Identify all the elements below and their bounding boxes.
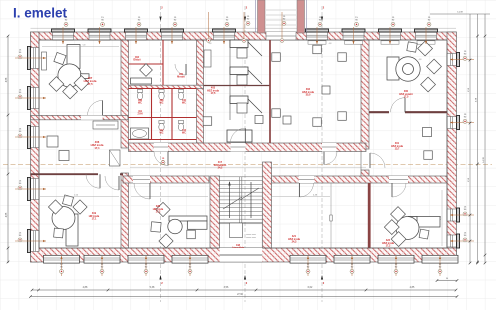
wall TL divider <box>31 115 129 119</box>
marker bottom <box>394 264 398 273</box>
axis line horizontal <box>3 164 492 166</box>
BR1 partition line <box>330 183 332 248</box>
door TR2 <box>369 153 371 168</box>
marker top <box>225 17 229 26</box>
door wc top <box>185 64 187 75</box>
svg-text:4,88: 4,88 <box>83 286 88 289</box>
svg-text:27,60: 27,60 <box>237 294 243 296</box>
marker left <box>18 50 22 59</box>
marker bottom <box>100 264 104 273</box>
marker bottom <box>60 264 64 273</box>
room BL1 chair top <box>62 195 73 206</box>
window bottom WB6 <box>334 255 370 263</box>
marker top <box>137 17 141 26</box>
window leader right <box>450 214 474 216</box>
marker left <box>18 181 22 190</box>
window bottom WB4 <box>172 255 208 263</box>
window top W6 <box>307 32 328 40</box>
window left WL4 <box>31 179 40 200</box>
svg-text:14,38: 14,38 <box>483 156 485 162</box>
door BL2 arc <box>149 183 151 199</box>
marker right <box>463 207 467 216</box>
wc desk <box>131 78 152 84</box>
wall V6 upper <box>361 40 369 149</box>
dim line top right <box>430 13 490 15</box>
stair exit opening <box>220 248 263 262</box>
room M desk spine <box>229 40 231 120</box>
window leader left <box>15 97 46 99</box>
door TL2 <box>99 174 101 188</box>
porch wall left <box>258 0 266 33</box>
window top W2 <box>89 32 110 40</box>
wall M1/M2 <box>204 85 271 87</box>
marker top <box>101 17 105 26</box>
window bottom WB3 <box>128 255 164 263</box>
marker bottom <box>306 264 310 273</box>
wc chair <box>140 64 153 77</box>
window leader bottom <box>189 256 191 276</box>
window leader left <box>15 240 46 242</box>
window top W4 <box>162 32 183 40</box>
wall V1 lower <box>121 173 129 248</box>
BL2 interior dim line <box>131 196 208 198</box>
corridor wall B east <box>272 176 448 183</box>
room TL2 radiator <box>93 121 118 129</box>
door TL divider <box>102 100 104 115</box>
wall left rooms divider <box>31 173 99 175</box>
window leader top <box>99 27 101 44</box>
window leader right <box>450 59 474 61</box>
room BL2 chairs <box>156 202 170 216</box>
stair bottom edge <box>219 222 263 224</box>
TL divider door gap <box>81 115 103 119</box>
porch wall right <box>297 0 305 33</box>
room TL2 cabinet <box>110 150 121 166</box>
marker bottom <box>144 264 148 273</box>
window leader bottom <box>439 256 441 276</box>
wall face markers top <box>208 12 210 38</box>
window right WR2 <box>447 117 457 129</box>
svg-text:4,85: 4,85 <box>410 286 415 289</box>
porch steps <box>266 9 296 11</box>
room M desk unit 3 <box>230 96 248 104</box>
door gap B: BR2 <box>389 176 408 183</box>
axis line 4 <box>321 6 323 302</box>
svg-text:xxxxx xxxx: xxxxx xxxx <box>246 234 256 236</box>
window leader top <box>425 27 427 44</box>
WC hatch band <box>129 85 204 88</box>
wall BR divider <box>368 183 371 248</box>
svg-text:3,56: 3,56 <box>224 286 229 289</box>
door open office <box>323 152 325 165</box>
window leader right <box>450 240 474 242</box>
svg-text:410WC: 410WC <box>182 99 187 105</box>
room TL chairs <box>49 77 64 92</box>
corridor wall B west <box>123 176 209 183</box>
marker top <box>64 17 68 26</box>
room TR2 tables <box>423 128 432 137</box>
marker right <box>463 233 467 242</box>
window left WL3 <box>31 127 40 148</box>
room M desk unit 1 <box>230 40 248 48</box>
room BL1 chairs <box>48 200 62 214</box>
window top W5 <box>214 32 235 40</box>
wall V6 face lines <box>360 149 362 170</box>
marker bottom <box>350 264 354 273</box>
room BL2 desk <box>168 216 207 234</box>
window leader top <box>316 27 318 44</box>
stairwell wall right <box>263 162 272 248</box>
marker bottom <box>188 264 192 273</box>
room TL2 tables <box>47 136 58 147</box>
marker right <box>463 51 467 60</box>
window right WR3 <box>447 209 457 221</box>
open office tables <box>272 53 281 62</box>
window leader left <box>15 188 46 190</box>
svg-text:5,38: 5,38 <box>150 286 155 289</box>
window leader bottom <box>145 256 147 276</box>
staircase treads <box>219 177 263 223</box>
window right WR4 <box>447 235 457 247</box>
window bottom WB1 <box>44 255 80 263</box>
window top W1 <box>53 32 74 40</box>
window leader top <box>62 27 64 44</box>
room TR desk <box>387 57 420 81</box>
outer wall left <box>31 32 40 262</box>
room TL desk <box>58 45 89 88</box>
WC cluster partition walls <box>129 40 197 140</box>
room M tables <box>203 117 212 126</box>
door WC-hall <box>167 152 169 166</box>
porch doorway <box>266 32 296 40</box>
window leader bottom <box>61 256 63 276</box>
inner wall face <box>39 40 447 248</box>
wall TR divider b <box>405 111 447 113</box>
window top W8 <box>380 32 401 40</box>
svg-text:412WC: 412WC <box>160 129 165 135</box>
room M side desk <box>204 50 211 67</box>
room BL1 desk <box>52 207 78 247</box>
stair up arrow <box>229 182 231 218</box>
hall top wall west <box>129 143 367 152</box>
window leader bottom <box>307 256 309 276</box>
svg-text:14,38: 14,38 <box>457 12 463 14</box>
stairwell wall left <box>210 176 220 248</box>
window bottom WB8 <box>422 255 458 263</box>
radiators under windows <box>308 41 326 44</box>
door TR <box>404 98 406 113</box>
room TL cabinet <box>42 52 47 70</box>
marker porch l <box>246 16 250 25</box>
window left WL1 <box>31 48 40 69</box>
door BR1 arc <box>299 183 301 197</box>
hall top wall opening WC <box>154 143 168 152</box>
window left WL2 <box>31 88 40 109</box>
short dim bottom right <box>437 280 457 282</box>
marker top <box>391 17 395 26</box>
wall TR divider a <box>369 111 389 113</box>
window top W9 <box>416 32 437 40</box>
window right WR1 <box>447 54 457 66</box>
window left WL5 <box>31 231 40 252</box>
window leader bottom <box>351 256 353 276</box>
svg-text:4,85: 4,85 <box>6 212 8 217</box>
marker porch r <box>282 16 286 25</box>
window leader top <box>135 27 137 44</box>
window leader top <box>171 27 173 44</box>
dim line bottom 2 <box>31 296 458 298</box>
marker top <box>355 17 359 26</box>
svg-text:409WC: 409WC <box>160 99 165 105</box>
window top W7 <box>343 32 364 40</box>
marker left <box>18 90 22 99</box>
axis line 3 <box>244 6 246 302</box>
window leader right <box>450 122 474 124</box>
wall left rooms divider b <box>120 173 123 175</box>
marker right <box>463 114 467 123</box>
room TR chair sq <box>407 42 417 52</box>
wc toilets row1 <box>137 90 142 93</box>
facade line above top wall <box>31 27 457 29</box>
BL1 interior dim line <box>40 196 119 198</box>
svg-text:4,88: 4,88 <box>6 77 8 82</box>
room BR2 chairs <box>391 207 406 222</box>
room M desk unit 2 <box>230 67 248 75</box>
marker left <box>18 129 22 138</box>
door BR2 arc <box>391 183 393 197</box>
bathtub <box>131 128 149 139</box>
wall V1 upper <box>121 40 129 148</box>
outer wall right <box>447 32 457 262</box>
outer wall bottom <box>31 248 457 262</box>
window leader left <box>15 57 46 59</box>
svg-text:xxxxx xxxx: xxxxx xxxx <box>246 237 256 239</box>
axis bottom tags <box>159 275 161 280</box>
porch outline lines <box>255 0 257 32</box>
corridor chain line <box>130 166 366 168</box>
outer wall top <box>31 32 457 40</box>
hall top wall opening vestibule <box>231 143 246 152</box>
window leader bottom <box>395 256 397 276</box>
window leader left <box>15 136 46 138</box>
door BL1 arc <box>118 176 120 190</box>
marker left <box>18 233 22 242</box>
marker top <box>427 17 431 26</box>
window leader top <box>389 27 391 44</box>
stair break line <box>223 197 242 209</box>
marker top <box>318 17 322 26</box>
door gap B: BL2 <box>133 176 150 183</box>
elevator under stairs <box>230 223 243 238</box>
window leader bottom <box>101 256 103 276</box>
room TL chair sq <box>54 52 66 64</box>
room TR chairs <box>418 41 433 56</box>
room BR2 desk <box>396 217 440 240</box>
svg-text:I. emelet: I. emelet <box>13 6 68 21</box>
window leader top <box>223 27 225 44</box>
window top W3 <box>126 32 147 40</box>
hall top wall opening office <box>322 143 336 152</box>
door vestibule <box>244 128 246 143</box>
marker bottom <box>438 264 442 273</box>
window bottom WB5 <box>290 255 326 263</box>
dim lines right <box>469 14 471 263</box>
svg-text:6,62: 6,62 <box>308 286 313 289</box>
svg-text:413WC: 413WC <box>182 129 187 135</box>
wc toilets row2 <box>159 121 164 124</box>
wall V2 <box>197 40 204 143</box>
BR1 interior dim line <box>272 196 330 198</box>
svg-text:408WC: 408WC <box>138 99 143 105</box>
dim line bottom 1 <box>32 289 456 291</box>
BR2 interior dim line <box>441 190 443 246</box>
TL interior dim line <box>42 46 119 48</box>
door gap B: BR1 <box>299 176 314 183</box>
window bottom WB2 <box>84 255 120 263</box>
wall V6 lower stub <box>361 170 369 183</box>
marker top <box>173 17 177 26</box>
window leader top <box>353 27 355 44</box>
wall V4 <box>269 40 271 143</box>
dim line left <box>7 36 9 263</box>
window bottom WB7 <box>378 255 414 263</box>
room M3 desk <box>227 130 252 142</box>
axis line 2 <box>160 6 162 302</box>
